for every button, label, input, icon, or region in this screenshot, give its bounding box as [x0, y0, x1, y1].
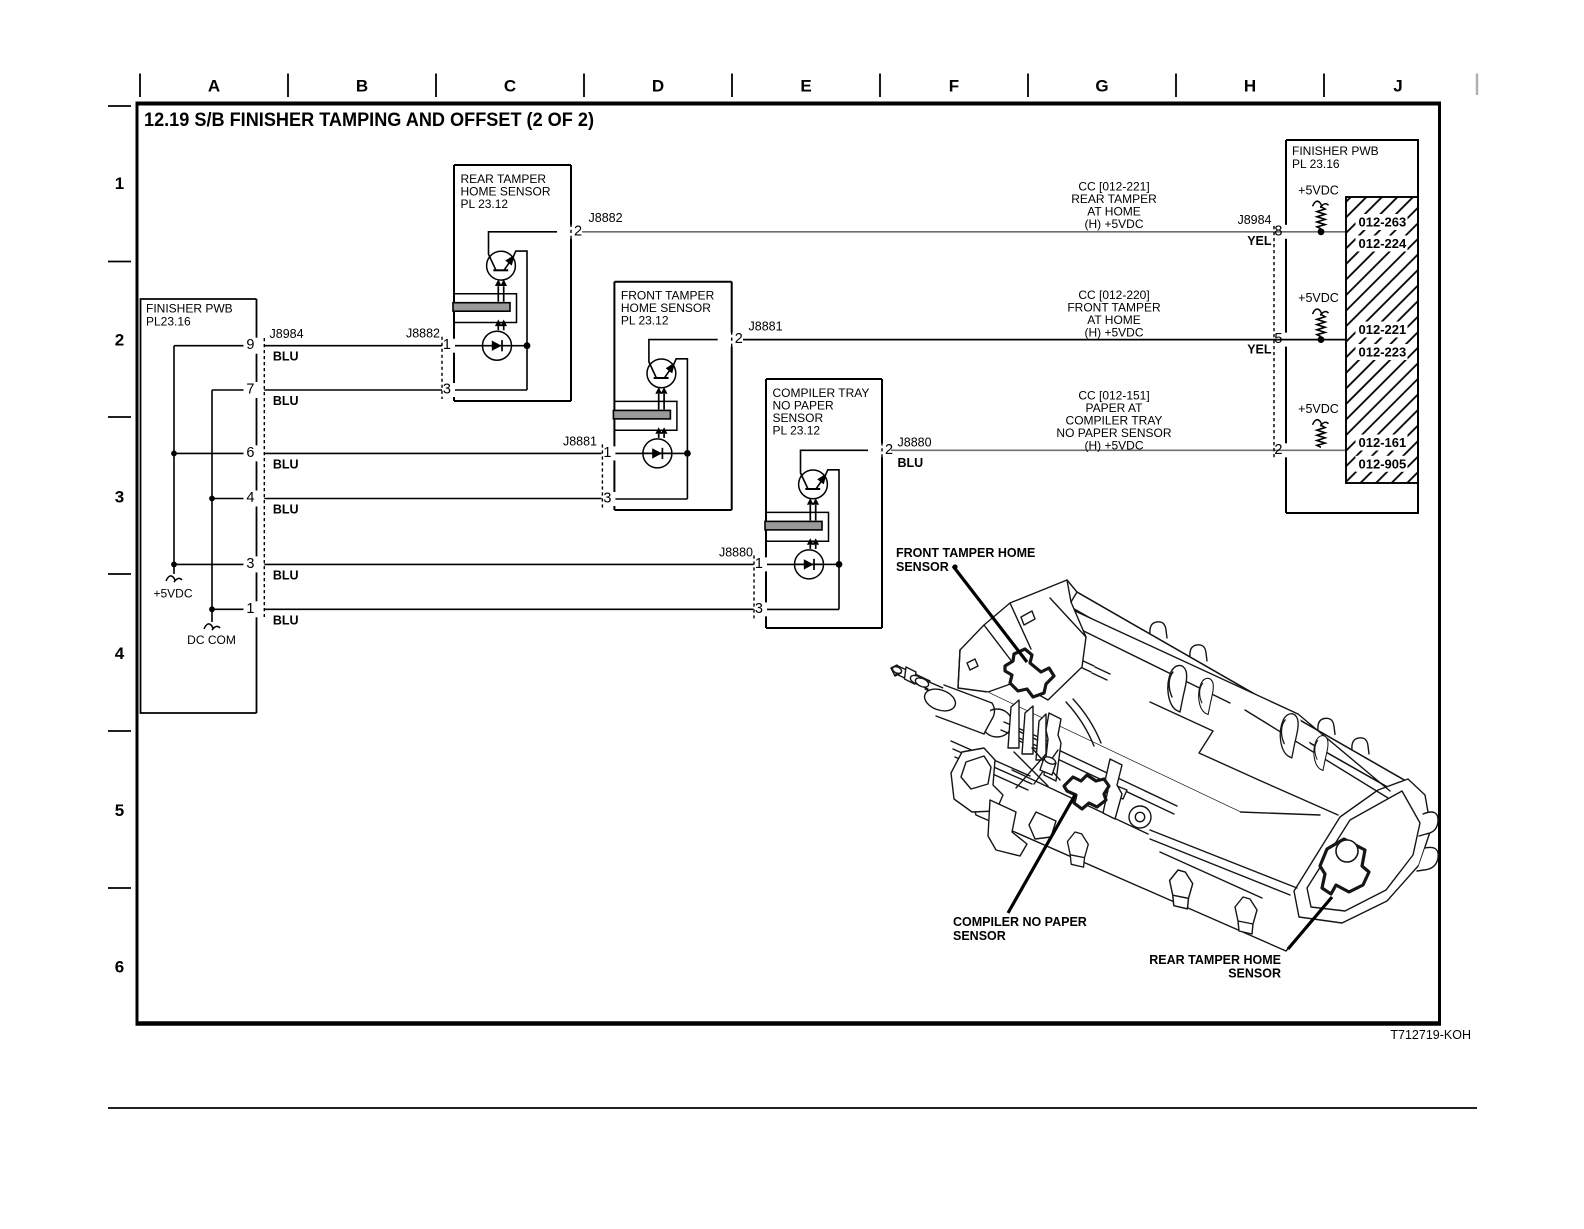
front tamper home sensor U-J8881 emitter wire to junction: [674, 359, 688, 499]
compiler tray no paper sensor U-J8880 junction dot: [836, 561, 843, 568]
svg-text:G: G: [1095, 77, 1108, 96]
junction dot pin1 bus: [209, 606, 215, 612]
rear tamper home sensor U-J8882 collector wire from pin2: [489, 232, 558, 270]
wire pin3 to J8880-1: [264, 563, 753, 565]
mech: left shaft: [896, 666, 930, 689]
wire pin4 to J8881-3: [264, 498, 601, 500]
svg-text:E: E: [800, 77, 811, 96]
svg-text:J8881: J8881: [563, 435, 597, 449]
svg-text:+5VDC: +5VDC: [1298, 183, 1339, 197]
svg-text:SENSOR: SENSOR: [953, 929, 1006, 943]
mech: center knob cylinder: [1040, 758, 1056, 775]
svg-text:D: D: [652, 77, 664, 96]
svg-text:3: 3: [755, 601, 763, 617]
rear tamper home sensor U-J8882 connector dashed segments: [441, 337, 443, 399]
svg-text:9: 9: [246, 337, 254, 353]
svg-text:2: 2: [735, 331, 743, 347]
svg-text:YEL: YEL: [1247, 343, 1272, 357]
compiler tray no paper sensor U-J8880 connector dashed segments: [753, 555, 755, 618]
leader compiler sensor: [1008, 795, 1075, 913]
mech: vane blades on deck left: [1008, 700, 1046, 760]
svg-text:6: 6: [115, 958, 124, 977]
svg-text:J8882: J8882: [406, 327, 440, 341]
mech: deck right step lines: [1150, 702, 1390, 815]
wire pin7 to J8882-3: [264, 389, 442, 391]
svg-text:BLU: BLU: [273, 503, 299, 517]
compiler tray no paper sensor U-J8880 collector wire from pin2: [801, 450, 869, 489]
mech: far rail bar: [1053, 584, 1406, 793]
rear tamper home sensor U-J8882 pin3 wire: [455, 389, 527, 391]
mech: center upright bracket: [1044, 713, 1061, 781]
mech: left lower bracket: [951, 748, 1003, 812]
svg-text:FRONT TAMPER HOME: FRONT TAMPER HOME: [896, 546, 1035, 560]
mech: below-cluster hook: [1029, 812, 1056, 839]
rear tamper home sensor U-J8882 pin1 wire: [455, 345, 483, 347]
svg-text:1: 1: [115, 174, 124, 193]
svg-text:(H) +5VDC: (H) +5VDC: [1084, 439, 1143, 453]
svg-text:SENSOR: SENSOR: [896, 560, 949, 574]
compiler tray no paper sensor U-J8880 light arrows upper: [809, 505, 811, 521]
svg-text:4: 4: [246, 490, 254, 506]
wire J8880-2 to J8984-2 (grey): [891, 449, 1286, 451]
svg-text:012-905: 012-905: [1359, 456, 1407, 471]
svg-text:3: 3: [443, 382, 451, 398]
mech: left bracket plate: [958, 580, 1086, 700]
svg-text:F: F: [949, 77, 959, 96]
wire pin1 to J8880-3: [264, 608, 753, 610]
front tamper home sensor U-J8881 phototransistor: [647, 359, 676, 388]
mech: front tamper sensor (bold part): [1005, 649, 1054, 697]
svg-text:A: A: [208, 77, 220, 96]
hatched fault-code block: [1346, 197, 1418, 483]
svg-text:YEL: YEL: [1247, 234, 1272, 248]
mech: big roller cylinder: [936, 685, 992, 734]
mech: right plate fingers: [1417, 812, 1438, 871]
svg-text:BLU: BLU: [898, 456, 924, 470]
compiler tray no paper sensor U-J8880 phototransistor: [799, 470, 828, 499]
wire J8881-2 to J8984-5: [743, 339, 1286, 341]
leader rear sensor: [1288, 897, 1332, 949]
front tamper home sensor U-J8881 light arrows upper: [658, 394, 660, 410]
svg-text:3: 3: [246, 556, 254, 572]
mech: near wall: [976, 692, 1286, 951]
svg-text:FINISHER PWB: FINISHER PWB: [1292, 144, 1379, 158]
right FINISHER PWB box: [1286, 140, 1418, 513]
rear tamper home sensor U-J8882 LED: [483, 331, 512, 360]
mech: plate holes: [967, 611, 1035, 670]
column ruler ticks (top): [139, 74, 141, 98]
svg-text:BLU: BLU: [273, 350, 299, 364]
wire stubs inside right PWB: [1286, 231, 1346, 233]
svg-text:J8880: J8880: [898, 436, 932, 450]
svg-text:5: 5: [115, 801, 124, 820]
svg-text:J: J: [1393, 77, 1402, 96]
rear tamper home sensor U-J8882 emitter wire to junction: [513, 251, 527, 390]
left PWB pin stubs: [174, 345, 244, 347]
svg-text:COMPILER NO PAPER: COMPILER NO PAPER: [953, 915, 1087, 929]
svg-text:H: H: [1244, 77, 1256, 96]
svg-text:012-224: 012-224: [1359, 236, 1407, 251]
compiler tray no paper sensor U-J8880 pin3 wire: [767, 608, 839, 610]
svg-text:FINISHER PWB: FINISHER PWB: [146, 302, 233, 316]
junction dot pin4 bus: [209, 496, 215, 502]
svg-text:12.19 S/B FINISHER TAMPING AND: 12.19 S/B FINISHER TAMPING AND OFFSET (2…: [144, 110, 594, 131]
svg-text:T712719-KOH: T712719-KOH: [1390, 1028, 1471, 1042]
svg-text:DC COM: DC COM: [187, 633, 236, 647]
mech: deck sheet: [987, 599, 1338, 815]
svg-text:BLU: BLU: [273, 613, 299, 627]
left FINISHER PWB box: [141, 299, 257, 713]
mech: left boot foot: [988, 800, 1027, 856]
front tamper home sensor U-J8881 junction dot: [684, 450, 691, 457]
svg-text:1: 1: [603, 445, 611, 461]
svg-text:4: 4: [115, 644, 125, 663]
svg-text:1: 1: [755, 556, 763, 572]
svg-text:6: 6: [246, 445, 254, 461]
mech: shaft to center hub: [1001, 722, 1057, 753]
leader front sensor: [953, 566, 1027, 662]
svg-text:BLU: BLU: [273, 568, 299, 582]
front tamper home sensor U-J8881 connector dashed segments: [601, 444, 603, 508]
svg-text:+5VDC: +5VDC: [1298, 402, 1339, 416]
svg-text:7: 7: [246, 382, 254, 398]
svg-text:SENSOR: SENSOR: [1228, 967, 1281, 981]
+5VDC bus (left): [173, 346, 175, 574]
mech: disc behind roller: [982, 709, 1012, 737]
mech: mid rails: [951, 729, 1297, 898]
rear tamper home sensor U-J8882 box: [454, 165, 571, 401]
svg-text:012-223: 012-223: [1359, 345, 1407, 360]
mech: shaft mid segment: [925, 681, 950, 699]
svg-text:+5VDC: +5VDC: [1298, 291, 1339, 305]
wire J8882-2 to J8984-8 (grey): [582, 231, 1286, 233]
svg-text:J8984: J8984: [270, 327, 304, 341]
rear tamper home sensor U-J8882 phototransistor: [487, 251, 516, 280]
front tamper home sensor U-J8881 pin3 wire: [615, 498, 687, 500]
svg-text:J8881: J8881: [749, 320, 783, 334]
svg-text:PL 23.12: PL 23.12: [621, 314, 669, 328]
svg-text:012-161: 012-161: [1359, 435, 1407, 450]
mech: center X braces: [1014, 748, 1060, 788]
svg-text:PL 23.12: PL 23.12: [461, 197, 509, 211]
svg-text:PL 23.12: PL 23.12: [773, 424, 821, 438]
compiler tray no paper sensor U-J8880 box: [766, 379, 882, 628]
compiler tray no paper sensor U-J8880 sensor flag bar: [765, 521, 822, 530]
svg-text:5: 5: [1274, 331, 1282, 347]
svg-text:BLU: BLU: [273, 457, 299, 471]
svg-text:REAR TAMPER HOME: REAR TAMPER HOME: [1149, 953, 1281, 967]
DC COM symbol: [204, 624, 220, 630]
mech: wave vanes on deck: [1168, 665, 1187, 712]
mech: rear tamper sensor (bold part): [1320, 839, 1369, 894]
mech: tamper chevrons: [1100, 781, 1127, 799]
mech: far rail bumps: [1150, 622, 1167, 638]
compiler tray no paper sensor U-J8880 light arrows lower: [809, 545, 811, 549]
mech: deck slots: [1076, 659, 1110, 680]
wire pin9 to J8882-1: [264, 345, 442, 347]
svg-text:C: C: [504, 77, 516, 96]
svg-text:8: 8: [1274, 223, 1282, 239]
front tamper home sensor U-J8881 pin1 wire: [615, 452, 643, 454]
front tamper home sensor U-J8881 sensor flag slot: [614, 401, 677, 430]
svg-text:J8882: J8882: [589, 211, 623, 225]
fault code labels: [1356, 214, 1408, 230]
front tamper home sensor U-J8881 box: [614, 282, 731, 510]
mech: idler wheel: [1129, 806, 1151, 828]
DC COM bus (left): [211, 390, 213, 622]
front tamper home sensor U-J8881 sensor flag bar: [613, 410, 670, 419]
compiler tray no paper sensor U-J8880 sensor flag slot: [766, 512, 829, 541]
svg-text:J8984: J8984: [1237, 213, 1271, 227]
connector J8984 dashed line (right): [1273, 226, 1275, 458]
mech: bottom feet: [1067, 832, 1088, 867]
svg-text:PL 23.16: PL 23.16: [1292, 157, 1340, 171]
svg-text:+5VDC: +5VDC: [153, 587, 192, 601]
svg-text:(H) +5VDC: (H) +5VDC: [1084, 217, 1143, 231]
mech: left shaft threaded tip: [891, 665, 901, 676]
compiler tray no paper sensor U-J8880 pin1 wire: [767, 563, 795, 565]
wire pin6 to J8881-1: [264, 452, 601, 454]
svg-text:J8880: J8880: [719, 546, 753, 560]
svg-text:2: 2: [574, 223, 582, 239]
+5VDC source symbol: [166, 576, 182, 582]
svg-text:PL23.16: PL23.16: [146, 315, 191, 329]
svg-text:3: 3: [115, 487, 124, 506]
rear tamper home sensor U-J8882 junction dot: [524, 342, 531, 349]
mech: compiler sensor (bold part): [1064, 775, 1109, 809]
svg-text:1: 1: [246, 601, 254, 617]
compiler tray no paper sensor U-J8880 LED: [795, 550, 824, 579]
connector J8984 dashed line (left): [263, 338, 265, 617]
rear tamper home sensor U-J8882 sensor flag slot: [454, 294, 517, 323]
mech: shaft nut and washer: [905, 667, 917, 684]
svg-text:B: B: [356, 77, 368, 96]
svg-text:012-263: 012-263: [1359, 215, 1407, 230]
row ruler ticks (left): [108, 105, 131, 107]
mech: right upright bracket: [1103, 759, 1122, 819]
main border frame: [137, 104, 1440, 1023]
svg-text:BLU: BLU: [273, 394, 299, 408]
svg-text:3: 3: [603, 491, 611, 507]
footer rule: [108, 1107, 1477, 1109]
mech: right end plate: [1294, 779, 1431, 923]
front tamper home sensor U-J8881 LED: [643, 439, 672, 468]
junction dot pin6 bus: [171, 451, 177, 457]
rear tamper home sensor U-J8882 sensor flag bar: [453, 303, 510, 312]
svg-text:2: 2: [115, 331, 124, 350]
svg-text:1: 1: [443, 337, 451, 353]
svg-text:2: 2: [1274, 442, 1282, 458]
svg-text:012-221: 012-221: [1359, 322, 1407, 337]
mechanical illustration of tamper assembly: [891, 580, 1438, 951]
rear tamper home sensor U-J8882 light arrows lower: [497, 326, 499, 330]
mech: bottom edge: [962, 767, 1313, 951]
grey ruler tick top-right: [1476, 74, 1479, 96]
mech: center arcs: [1066, 699, 1101, 746]
front tamper home sensor U-J8881 collector wire from pin2: [649, 340, 718, 378]
svg-text:(H) +5VDC: (H) +5VDC: [1084, 326, 1143, 340]
front tamper home sensor U-J8881 light arrows lower: [658, 434, 660, 438]
junction dot pin3 bus: [171, 562, 177, 568]
compiler tray no paper sensor U-J8880 emitter wire to junction: [825, 470, 839, 610]
rear tamper home sensor U-J8882 light arrows upper: [497, 286, 499, 302]
